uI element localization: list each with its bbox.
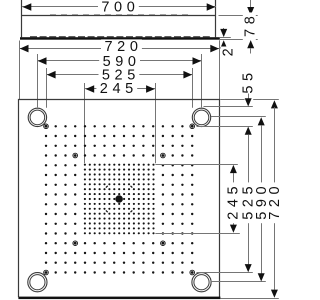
svg-text:720: 720: [267, 182, 283, 220]
dim 2 right of side view: [220, 37, 231, 39]
dashed nozzle row above plate line: [30, 36, 210, 38]
dim 590 horizontal: [37, 54, 39, 107]
side view panel outline: [22, 0, 216, 37]
svg-text:78: 78: [242, 12, 258, 37]
side view plate thick bottom line: [20, 37, 220, 40]
plate thick bottom edge: [18, 297, 220, 300]
dim 78 right of side view: [219, 15, 258, 17]
ringed nozzles: [45, 125, 48, 128]
dim 590 vertical: [258, 117, 265, 125]
main plate square: [19, 100, 220, 298]
svg-text:700: 700: [101, 0, 139, 16]
diagonal tick marks around centre: [106, 186, 108, 188]
dim 720 horizontal: [19, 41, 21, 100]
dense nozzle grid: [84, 164, 86, 166]
central large nozzle: [115, 195, 123, 203]
sparse nozzle grid: [54, 125, 56, 127]
dim 55 vertical: [241, 68, 257, 97]
dim 245 horizontal: [84, 83, 86, 163]
corner spray circles: [28, 108, 46, 126]
nozzle dashes on side-view top face: [50, 14, 192, 16]
svg-text:55: 55: [241, 68, 257, 93]
dim 245 vertical: [230, 165, 237, 173]
dim 720 vertical: [271, 100, 278, 108]
svg-text:2: 2: [220, 44, 236, 57]
svg-text:245: 245: [100, 81, 138, 97]
svg-text:245: 245: [225, 182, 241, 220]
dim 525 vertical: [245, 127, 252, 135]
svg-text:720: 720: [105, 39, 143, 55]
dim 700 extension+line: [22, 6, 100, 8]
dim 525 horizontal: [46, 68, 48, 108]
right reference lines: [220, 99, 244, 101]
